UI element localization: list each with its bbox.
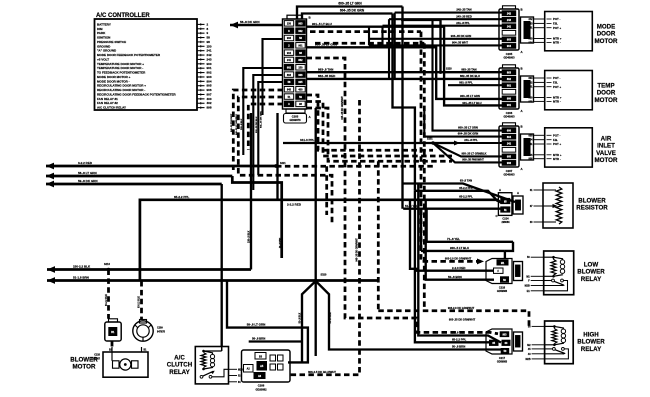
wire 604 vertical <box>393 14 415 191</box>
svg-text:904: 904 <box>287 52 292 55</box>
wire 900-.5 LT BLU to low relay <box>505 242 513 251</box>
relay resistor coil <box>552 329 557 344</box>
wire S231 branch to C207 row6 <box>433 143 465 162</box>
svg-text:AIR: AIR <box>601 136 612 143</box>
pin 241 POT + <box>534 143 545 145</box>
svg-text:A/C CONTROLLER: A/C CONTROLLER <box>96 13 150 19</box>
svg-text:341-3 PPL: 341-3 PPL <box>300 138 315 142</box>
blower motor pins <box>111 347 113 361</box>
svg-text:DOOR: DOOR <box>597 90 616 97</box>
wire 604-.35 DK GRN top <box>302 14 393 20</box>
connector C217 body <box>486 329 512 354</box>
connector C206 pin boxes <box>502 70 516 75</box>
svg-text:2-2.0 RED: 2-2.0 RED <box>452 266 466 270</box>
pin 901 MTR - <box>534 100 545 102</box>
pin 863 POT - <box>534 77 545 79</box>
svg-text:MOTOR: MOTOR <box>595 38 618 45</box>
svg-text:POT -: POT - <box>553 133 561 137</box>
svg-text:RESISTOR: RESISTOR <box>576 205 608 212</box>
wire 51-.8 YEL to C214 <box>403 208 502 210</box>
blower resistor R1 element <box>556 187 562 224</box>
svg-text:241-.8 PPL: 241-.8 PPL <box>456 21 470 25</box>
svg-text:241: 241 <box>529 27 534 30</box>
svg-text:MTR -: MTR - <box>553 100 561 104</box>
wire 905-.35 LT GRN/BLK <box>465 155 502 157</box>
svg-text:3-2.2 RED: 3-2.2 RED <box>78 161 93 165</box>
svg-text:846-.35 PNK/WHT: 846-.35 PNK/WHT <box>230 113 233 132</box>
relay switch arm <box>554 281 564 285</box>
svg-text:BLOWER: BLOWER <box>577 339 605 346</box>
connector C217 pin 63 <box>502 340 510 345</box>
svg-text:M2B: M2B <box>238 369 243 371</box>
svg-text:LOW: LOW <box>584 262 599 269</box>
connector C208 pin boxes <box>244 365 254 373</box>
wire 903/904 riser <box>368 27 370 46</box>
svg-text:50-.8 BLK: 50-.8 BLK <box>300 312 302 323</box>
svg-text:65-2.2 PPL: 65-2.2 PPL <box>452 337 466 341</box>
svg-text:POT +: POT + <box>553 85 562 89</box>
dashed stub below bundle <box>325 166 328 215</box>
svg-text:905: 905 <box>298 81 303 84</box>
svg-text:GD20882: GD20882 <box>255 387 267 391</box>
relay inductor coil <box>554 257 563 260</box>
svg-text:841-.35 DK GRN: 841-.35 DK GRN <box>259 111 262 128</box>
svg-text:B: B <box>521 125 523 129</box>
svg-text:902: 902 <box>298 30 303 33</box>
wire 71-.8 YEL <box>427 209 513 242</box>
pin 900 MTR + <box>534 97 545 99</box>
dashed bundle row 2 <box>307 102 453 157</box>
svg-text:845-.35 DK GRN/WHT: 845-.35 DK GRN/WHT <box>355 238 358 262</box>
relay switch arm <box>555 350 565 354</box>
wire 150-2.2 BLK off-page <box>47 268 251 271</box>
connector C207 mating half <box>521 134 534 160</box>
relay pin 50 <box>531 256 544 258</box>
wire 903 BLK/WHT riser from C203 left <box>253 75 283 190</box>
pin 905 MTR + <box>534 154 545 156</box>
svg-text:845: 845 <box>287 88 292 91</box>
svg-text:903: 903 <box>529 38 534 41</box>
svg-text:243: 243 <box>507 19 512 22</box>
svg-text:862: 862 <box>529 81 534 84</box>
connector C214 body <box>498 193 512 216</box>
relay pin E1 <box>531 290 544 292</box>
relay switch <box>553 348 556 351</box>
svg-text:GD40903: GD40903 <box>503 115 515 119</box>
relay pin M1 <box>531 275 544 277</box>
wire 242 riser <box>394 13 396 79</box>
svg-text:905-.35 LT GRN/BLK: 905-.35 LT GRN/BLK <box>461 152 486 156</box>
wire 600-.35 LT GRN top <box>297 7 403 20</box>
svg-text:901-.5 LT BLU: 901-.5 LT BLU <box>312 22 332 26</box>
relay inductor coil <box>554 326 563 329</box>
wire 902 riser from C203 <box>263 39 284 115</box>
svg-text:65-2.2 PPL: 65-2.2 PPL <box>174 195 189 199</box>
svg-text:M2B: M2B <box>526 358 531 361</box>
svg-text:243-.35 RED: 243-.35 RED <box>456 14 472 18</box>
splice S216 <box>107 268 110 271</box>
connector C207 pin boxes <box>502 128 516 133</box>
svg-text:862: 862 <box>507 78 512 81</box>
svg-text:400: 400 <box>298 88 303 91</box>
dashed riser to 903 row <box>377 161 380 310</box>
wire 58-.8 DK GRN with off-page arrow <box>230 24 283 27</box>
connector C214 pin 51 <box>501 207 510 212</box>
wire 150-.8 BLK riser <box>250 113 252 270</box>
svg-text:RELAY: RELAY <box>581 346 602 353</box>
dashed bundle row 4 from RED splice <box>276 165 433 168</box>
splice S218 <box>439 71 442 74</box>
svg-text:903-.35 DK GRN/WHT: 903-.35 DK GRN/WHT <box>449 318 476 322</box>
svg-text:RELAY: RELAY <box>581 276 602 283</box>
svg-text:903: 903 <box>502 333 507 336</box>
svg-text:71-.8 YEL: 71-.8 YEL <box>447 237 460 241</box>
svg-text:903: 903 <box>507 39 512 42</box>
svg-text:2-2.2 RED: 2-2.2 RED <box>287 203 302 207</box>
wire 2-2.0 RED jog to low relay <box>410 200 494 271</box>
relay pin F <box>531 280 544 282</box>
dashed bundle row 3 <box>307 108 453 161</box>
connector C216 pin F <box>494 268 504 273</box>
svg-text:863: 863 <box>507 71 512 74</box>
wire 59 drop to clutch relay <box>221 184 223 347</box>
dashed net 903-2.0 to low relay <box>421 32 481 262</box>
svg-text:S216: S216 <box>104 263 110 266</box>
dashed net 306 DK BLU/WHT to C208 <box>288 100 360 375</box>
svg-text:903: 903 <box>298 23 303 26</box>
A/C clutch relay pins <box>229 368 238 370</box>
A/C clutch relay coil <box>201 353 206 368</box>
wire 241 riser <box>381 26 383 48</box>
svg-text:56-.8 BRN: 56-.8 BRN <box>252 337 265 341</box>
svg-text:600-.35 LT GRN: 600-.35 LT GRN <box>338 2 362 6</box>
connector C206 body <box>499 68 519 109</box>
relay switch <box>552 279 555 282</box>
connector C217 pin 65 <box>490 340 499 345</box>
wire 906-.35 PNK/WHT <box>465 161 502 163</box>
svg-text:863-.8 TAN: 863-.8 TAN <box>318 67 333 71</box>
svg-text:998: 998 <box>207 106 212 110</box>
svg-text:150: 150 <box>287 23 292 26</box>
svg-text:60-2.2 BLK: 60-2.2 BLK <box>106 294 108 306</box>
svg-text:50-.8 ORN: 50-.8 ORN <box>330 312 332 323</box>
connector C209 body <box>133 321 153 341</box>
svg-text:C209: C209 <box>157 327 163 330</box>
svg-text:DOOR: DOOR <box>597 31 616 38</box>
svg-text:GD40903: GD40903 <box>503 56 515 60</box>
svg-text:B: B <box>521 67 523 71</box>
wire 862 RED/DK BLU <box>307 78 503 80</box>
wire S320 drop to C208 mating half <box>315 281 317 356</box>
svg-text:600-.35 LT GRN: 600-.35 LT GRN <box>458 126 478 130</box>
svg-text:900: 900 <box>507 98 512 101</box>
svg-text:604-.35 DK GRN: 604-.35 DK GRN <box>458 132 479 136</box>
svg-text:58-.8 DK GRN: 58-.8 DK GRN <box>240 20 260 24</box>
wire 341-3 PPL mid <box>283 142 457 144</box>
svg-text:901-.35 LT BLU: 901-.35 LT BLU <box>462 101 481 105</box>
svg-text:903-2.0 DK GRN/WHT: 903-2.0 DK GRN/WHT <box>445 257 472 261</box>
svg-text:845-.35 DK GRN/WHT: 845-.35 DK GRN/WHT <box>341 96 344 120</box>
dashed blower feed 63-2.2 BLK <box>140 281 143 320</box>
svg-text:59-.8 DK GRN: 59-.8 DK GRN <box>78 179 98 183</box>
A/C clutch relay switch <box>200 375 203 378</box>
svg-text:M2B: M2B <box>525 285 530 288</box>
dashed left staircase 2 <box>238 97 332 225</box>
svg-text:POT -: POT - <box>553 76 561 80</box>
connector C217 mating half <box>514 332 523 351</box>
relay pin M2 <box>532 344 545 346</box>
relay pin 43 <box>532 353 545 355</box>
connector C210 body <box>105 322 121 341</box>
connector C205 mating half <box>521 17 534 43</box>
connector C217 pin 903 <box>500 332 509 337</box>
LOW BLOWER relay box <box>544 251 574 295</box>
svg-text:51-1.8 BRN: 51-1.8 BRN <box>73 276 89 280</box>
relay pin M2B <box>532 358 545 360</box>
relay pin 50 <box>532 325 545 327</box>
svg-text:C206: C206 <box>506 111 513 115</box>
relay resistor coil <box>551 259 556 275</box>
wire S320 branch right to high relay 50 <box>316 281 502 350</box>
svg-text:904: 904 <box>507 45 512 48</box>
wire 51-1.8 BRN off-page to low relay <box>47 279 377 282</box>
wire 903 DK GRN/WHT to C205 <box>369 38 502 40</box>
svg-text:150-2.2 BLK: 150-2.2 BLK <box>73 265 91 269</box>
wire 3-2.2 RED off-page <box>46 165 276 168</box>
svg-text:GD59883: GD59883 <box>497 290 508 293</box>
wire 846 riser from C203 left <box>243 68 283 155</box>
wire 50-.8 BRN to low relay <box>426 200 494 280</box>
relay pin 45 <box>532 348 545 350</box>
svg-text:RELAY: RELAY <box>169 369 190 376</box>
wire to C207 row2 <box>424 110 502 137</box>
svg-text:A/C CLUTCH RELAY: A/C CLUTCH RELAY <box>97 106 126 110</box>
wire 900 LT GRN jog <box>307 47 503 99</box>
wire to C207 row1 <box>433 20 503 131</box>
AIR INLET VALVE MOTOR box <box>545 128 593 167</box>
connector C205 body <box>499 9 519 50</box>
relay pin M2B <box>531 285 544 287</box>
svg-text:243: 243 <box>529 22 534 25</box>
svg-text:C205: C205 <box>506 52 513 56</box>
connector C216 body <box>486 259 512 284</box>
svg-text:902-.35 DK BLU: 902-.35 DK BLU <box>256 116 258 133</box>
svg-text:150-.8 BLK: 150-.8 BLK <box>241 118 243 130</box>
svg-text:MTR -: MTR - <box>553 157 561 161</box>
svg-text:65-2.2 PPL: 65-2.2 PPL <box>459 186 473 190</box>
wire 59-.8 LT GRN wrap to C208 <box>227 281 308 362</box>
connector C205 pin boxes <box>502 11 516 16</box>
svg-text:C207: C207 <box>506 169 513 173</box>
svg-text:902: 902 <box>287 67 292 70</box>
relay coil input <box>545 325 555 327</box>
splice S231 <box>431 141 434 144</box>
svg-text:C208: C208 <box>258 384 265 388</box>
pin 862 F.B. <box>534 81 545 83</box>
svg-text:863: 863 <box>529 77 534 80</box>
svg-text:906-.35 PNK/WHT: 906-.35 PNK/WHT <box>462 158 484 162</box>
svg-text:604: 604 <box>507 136 512 139</box>
MODE door motor box <box>545 12 593 51</box>
pin 906 MTR - <box>534 158 545 160</box>
svg-text:242: 242 <box>507 12 512 15</box>
pin 241 POT + <box>534 27 545 29</box>
blower motor M1 box <box>103 352 148 377</box>
blower resistor pin 67 <box>534 205 544 207</box>
svg-text:S320: S320 <box>321 273 327 276</box>
blower motor M1 symbol <box>113 361 120 368</box>
pin 903 MTR + <box>534 38 545 40</box>
svg-text:65-2.2 PPL: 65-2.2 PPL <box>459 194 473 198</box>
svg-text:600: 600 <box>529 134 534 137</box>
svg-text:B: B <box>521 8 523 12</box>
svg-text:VALVE: VALVE <box>596 150 616 157</box>
svg-text:903-.35 BLK/WHT: 903-.35 BLK/WHT <box>251 116 253 135</box>
A/C clutch relay K3 box <box>195 347 228 384</box>
blower resistor pin 61 <box>534 189 544 191</box>
dashed top staircase 1 <box>310 30 421 33</box>
svg-text:904-.35 WHT: 904-.35 WHT <box>452 41 468 45</box>
svg-text:S231: S231 <box>427 138 433 141</box>
wire 904-.35 WHT to C205 <box>369 44 502 46</box>
svg-text:59-.8 LT GRN: 59-.8 LT GRN <box>247 323 266 327</box>
relay coil input <box>544 256 554 258</box>
wire 56-.8 BRN into C208 branch <box>249 340 302 342</box>
svg-text:604-.35 DK GRN: 604-.35 DK GRN <box>340 9 365 13</box>
connector C216 pin 50 <box>501 277 509 282</box>
splice S320 <box>314 279 318 283</box>
svg-text:906: 906 <box>298 74 303 77</box>
connector C208 body <box>242 350 291 382</box>
dashed net 845 drop to high relay dash row <box>307 58 499 334</box>
svg-text:63-.8 TAN: 63-.8 TAN <box>460 179 472 183</box>
svg-text:63-2.2 BLK: 63-2.2 BLK <box>139 296 141 308</box>
wire 58-.8 LT GRN off-page <box>46 175 232 178</box>
wire 243 riser <box>388 19 390 79</box>
svg-text:150-.8 BLK: 150-.8 BLK <box>247 230 250 243</box>
svg-text:C: C <box>496 214 498 218</box>
svg-text:904: 904 <box>529 41 534 44</box>
svg-text:HIGH: HIGH <box>583 332 599 339</box>
svg-text:GD99876: GD99876 <box>289 118 301 122</box>
svg-text:241-.8 PPL: 241-.8 PPL <box>464 138 478 142</box>
svg-text:905: 905 <box>507 156 512 159</box>
blower resistor R1 box <box>543 183 573 228</box>
svg-text:861-.8 PPL: 861-.8 PPL <box>459 80 473 84</box>
svg-text:862: 862 <box>298 59 303 62</box>
connector C214 mating half <box>513 196 523 214</box>
svg-text:A: A <box>499 188 501 192</box>
svg-text:59-.8 BRN: 59-.8 BRN <box>279 237 281 248</box>
svg-text:TEMP: TEMP <box>597 83 614 90</box>
svg-text:1286267: 1286267 <box>91 357 101 360</box>
svg-text:241: 241 <box>287 59 292 62</box>
pin 904 MTR - <box>534 41 545 43</box>
svg-text:298084: 298084 <box>502 221 511 224</box>
wire 63 TAN riser to high relay <box>418 184 501 343</box>
blower C210 to motor stub <box>111 341 114 347</box>
svg-text:906: 906 <box>529 158 534 161</box>
svg-text:POT -: POT - <box>553 17 561 21</box>
dashed bundle row 1 <box>307 95 434 150</box>
connector C206 mating half <box>521 76 534 102</box>
svg-text:GD59883: GD59883 <box>497 361 508 364</box>
svg-text:241: 241 <box>507 143 512 146</box>
svg-text:903: 903 <box>287 37 292 40</box>
HIGH BLOWER relay box <box>545 321 574 364</box>
wire 241-.8 PPL into C207 <box>457 142 502 144</box>
connector C216 mating half <box>514 262 523 281</box>
svg-text:901: 901 <box>507 104 512 107</box>
svg-text:847875: 847875 <box>157 330 166 333</box>
wire S218 riser <box>439 20 441 72</box>
wire 861-.8 PPL <box>448 84 502 86</box>
dashed blower feed 60-2.2 BLK <box>107 270 110 319</box>
dashed net 903-2.0 to high relay bracket <box>423 43 426 310</box>
wire 65-2.2 PPL long run <box>140 200 501 281</box>
svg-text:241: 241 <box>507 26 512 29</box>
pin 242 POT - <box>534 18 545 20</box>
connector C203 label <box>284 114 307 124</box>
svg-text:A/C: A/C <box>174 355 185 362</box>
wire 242-.35 TAN to C205 <box>395 12 502 14</box>
svg-text:900: 900 <box>529 97 534 100</box>
svg-text:MTR -: MTR - <box>553 41 561 45</box>
svg-text:POT +: POT + <box>553 142 562 146</box>
wire 600 vertical drop <box>401 7 403 209</box>
svg-text:241: 241 <box>529 143 534 146</box>
dashed left staircase 1 <box>233 90 283 170</box>
svg-text:CLUTCH: CLUTCH <box>167 362 193 369</box>
svg-text:S218: S218 <box>446 67 452 70</box>
wire 65 PPL riser to high relay <box>415 191 494 342</box>
svg-text:GD40903: GD40903 <box>503 173 515 177</box>
wire 59-.8 DK GRN off-page <box>46 183 222 186</box>
svg-text:901: 901 <box>529 100 534 103</box>
svg-text:901: 901 <box>298 45 303 48</box>
svg-text:242: 242 <box>529 18 534 21</box>
svg-text:50-.8 BRN: 50-.8 BRN <box>448 275 462 279</box>
svg-text:903-.35 DK GRN: 903-.35 DK GRN <box>451 34 472 38</box>
wire S320 riser <box>315 108 317 281</box>
svg-text:MOTOR: MOTOR <box>595 157 618 164</box>
svg-text:906: 906 <box>507 162 512 165</box>
wire 863-.8 TAN <box>307 71 503 73</box>
svg-text:C203: C203 <box>292 114 299 118</box>
svg-text:862-.35 RED: 862-.35 RED <box>318 74 336 78</box>
svg-text:S221: S221 <box>280 162 286 165</box>
connector C216 pin M1 <box>497 260 508 265</box>
svg-text:50-.8 BRN: 50-.8 BRN <box>452 345 465 349</box>
relay switch pole wiring <box>544 285 564 287</box>
svg-text:863: 863 <box>287 74 292 77</box>
wire 902 DK BLU riser from C203 left <box>258 82 283 175</box>
svg-text:863-.35 TAN: 863-.35 TAN <box>461 67 476 71</box>
svg-text:INLET: INLET <box>597 143 615 150</box>
wire 243-.35 RED to C205 <box>389 18 502 20</box>
svg-text:MOTOR: MOTOR <box>73 364 96 371</box>
svg-text:900-.35 LT GRN: 900-.35 LT GRN <box>460 94 480 98</box>
wire S320 branch left <box>302 281 316 362</box>
svg-text:A: A <box>517 191 519 195</box>
svg-text:MOTOR: MOTOR <box>595 97 618 104</box>
pin 243 F.B. <box>534 22 545 24</box>
connector C210 pin <box>109 328 117 336</box>
svg-text:C216: C216 <box>499 285 506 289</box>
connector C217 pin 50 <box>501 349 509 354</box>
svg-text:C210: C210 <box>94 354 100 357</box>
wire riser C203 to PPL line <box>276 113 278 200</box>
